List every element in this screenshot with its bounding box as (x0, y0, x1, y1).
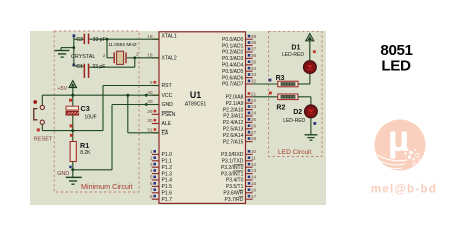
LED Circuit dashed box (269, 31, 323, 156)
svg-text:P0.1/AD1: P0.1/AD1 (222, 43, 244, 49)
title 8051 (380, 42, 413, 59)
R2 reference label (276, 105, 285, 112)
U1 pin 33 P0.6/AD6 (222, 72, 257, 81)
ground symbol (LED circuit) (305, 135, 318, 140)
U1 pin 3 P1.2 (150, 162, 172, 171)
R1 reference label (80, 141, 89, 150)
U1 pin 17 P3.7/RD (224, 194, 256, 203)
svg-text:33 pF: 33 pF (93, 37, 106, 43)
C3 value label 10UF (85, 115, 97, 121)
microcontroller U1 AT89C51 body (159, 32, 246, 204)
wire crystal left leg (107, 39, 113, 58)
svg-text:35: 35 (251, 59, 257, 65)
U1 pin 1 P1.0 (150, 149, 172, 158)
R1 marker top (70, 134, 73, 137)
U1 pin 37 P0.2/AD2 (222, 47, 257, 56)
svg-text:33 pF: 33 pF (92, 64, 105, 70)
svg-text:P3.2/INT0: P3.2/INT0 (221, 165, 244, 171)
U1 pin 31 EA (147, 127, 169, 136)
wire C1 to XTAL2 net (74, 58, 135, 67)
U1 pin 36 P0.3/AD3 (222, 53, 257, 62)
svg-text:36: 36 (251, 53, 257, 59)
svg-text:14: 14 (251, 175, 257, 181)
svg-text:U1: U1 (190, 90, 201, 100)
svg-text:P0.7/AD7: P0.7/AD7 (222, 82, 244, 88)
svg-text:XTAL2: XTAL2 (162, 56, 177, 62)
LED D2 (305, 105, 318, 118)
svg-text:24: 24 (251, 111, 257, 117)
svg-text:P2.3/A11: P2.3/A11 (223, 114, 243, 120)
U1 pin 28 P2.7/A15 (223, 136, 257, 145)
svg-text:22: 22 (251, 98, 257, 104)
svg-text:CRYSTAL: CRYSTAL (71, 54, 95, 60)
svg-text:EA: EA (162, 131, 169, 137)
svg-text:mel@b-bd: mel@b-bd (371, 184, 437, 196)
svg-text:P1.4: P1.4 (162, 178, 173, 184)
svg-text:2: 2 (103, 53, 106, 59)
wire RST node to pin 9 (73, 86, 159, 131)
svg-text:10: 10 (251, 149, 257, 155)
svg-text:12: 12 (251, 162, 257, 168)
svg-text:11.0592 MHZ: 11.0592 MHZ (108, 42, 137, 48)
svg-text:P3.4/T0: P3.4/T0 (226, 178, 244, 184)
svg-text:13: 13 (251, 168, 257, 174)
R3 wire boundary marker (269, 79, 272, 82)
wire VCC rail to pin 40 (42, 94, 159, 96)
svg-text:1: 1 (150, 149, 153, 155)
D1 reference label (291, 45, 300, 52)
U1 pin 12 P3.2/INT0 (221, 162, 257, 171)
title LED (381, 57, 411, 74)
U1 pin 30 ALE (147, 118, 171, 127)
U1 pin 27 P2.6/A14 (223, 130, 257, 139)
svg-text:XTAL1: XTAL1 (162, 33, 177, 39)
svg-text:LED Circuit: LED Circuit (278, 149, 312, 156)
capacitor C2 (84, 34, 90, 44)
R1 marker bottom (69, 166, 72, 169)
svg-text:29: 29 (147, 109, 153, 115)
wire VCC to EA pin 31 (128, 95, 159, 133)
watermark text mel@b-bd (371, 184, 437, 196)
U1 pin 6 P1.5 (150, 181, 172, 190)
svg-text:16: 16 (251, 187, 257, 193)
svg-text:C2: C2 (76, 37, 83, 43)
U1 pin 25 P2.4/A12 (223, 117, 257, 126)
wire D2 cathode to ground (310, 118, 312, 135)
U1 reference label (190, 90, 201, 100)
svg-text:RST: RST (162, 83, 172, 89)
+5V power label (58, 86, 68, 92)
svg-text:C1: C1 (76, 64, 83, 70)
svg-text:P2.5/A13: P2.5/A13 (223, 127, 244, 133)
crystal pin number 2 (103, 53, 106, 59)
C3 marker top (69, 99, 72, 102)
U1 pin 22 P2.1/A9 (226, 98, 257, 107)
svg-text:Minimum Circuit: Minimum Circuit (81, 182, 133, 191)
node: VCC/EA junction (126, 94, 129, 97)
svg-text:P3.6/WR: P3.6/WR (223, 191, 243, 197)
svg-text:P3.7/RD: P3.7/RD (224, 197, 243, 203)
switch origin marker (33, 100, 37, 104)
U1 pin 38 P0.1/AD1 (222, 40, 257, 49)
svg-text:P2.2/A10: P2.2/A10 (223, 107, 244, 113)
U1 pin 11 P3.1/TXD (222, 155, 256, 164)
D1 value label LED-RED (282, 52, 304, 58)
D1 origin marker (313, 50, 316, 53)
C1 value label 33 pF (92, 64, 105, 70)
wire XTAL1 net: ground rail to C2 to chip pin 19 (74, 38, 159, 40)
U1 pin 26 P2.5/A13 (223, 123, 257, 132)
wire ground node to pin 20 (73, 105, 159, 170)
svg-text:P1.7: P1.7 (162, 197, 173, 203)
svg-text:RESET: RESET (34, 137, 53, 143)
R1 value label 8.2K (80, 150, 91, 156)
crystal frequency label 11.0592 MHZ (108, 42, 137, 48)
resistor R2 (278, 94, 298, 100)
svg-text:11: 11 (251, 155, 256, 161)
U1 pin 35 P0.4/AD4 (222, 59, 257, 68)
svg-text:33: 33 (251, 72, 257, 78)
svg-text:25: 25 (251, 117, 257, 123)
svg-text:38: 38 (251, 40, 257, 46)
svg-text:5: 5 (150, 175, 153, 181)
svg-text:P3.0/RXD: P3.0/RXD (221, 152, 244, 158)
svg-text:LED-RED: LED-RED (283, 118, 305, 124)
svg-text:P2.1/A9: P2.1/A9 (226, 101, 244, 107)
wire R3 to pin 32 (253, 83, 278, 85)
C2 value label 33 pF (93, 37, 106, 43)
svg-text:AT89C51: AT89C51 (185, 102, 207, 108)
watermark logo (375, 118, 426, 171)
svg-text:6: 6 (150, 181, 153, 187)
svg-text:P2.6/A14: P2.6/A14 (223, 133, 244, 139)
resistor R1 (70, 131, 76, 170)
svg-text:P2.0/A8: P2.0/A8 (226, 95, 244, 101)
ground symbol (minimum circuit) (66, 170, 82, 184)
svg-text:P1.6: P1.6 (162, 191, 173, 197)
svg-text:39: 39 (251, 34, 257, 40)
U1 pin 34 P0.5/AD5 (222, 66, 257, 75)
svg-text:P1.1: P1.1 (162, 159, 173, 165)
U1 pin 39 P0.0/AD0 (222, 34, 257, 43)
wire crystal right leg to XTAL2 pin 18 (127, 57, 159, 59)
svg-text:P2.7/A15: P2.7/A15 (223, 139, 244, 145)
svg-text:4: 4 (150, 168, 153, 174)
U1 pin 13 P3.3/INT1 (221, 168, 257, 177)
svg-text:P1.0: P1.0 (162, 152, 173, 158)
LED circuit power symbol arrow (306, 34, 314, 61)
push button RESET switch (34, 95, 45, 130)
wire switch bottom to RST node (42, 130, 73, 132)
ground rail end marker (73, 34, 76, 37)
capacitor C3 (66, 95, 79, 130)
svg-text:8: 8 (150, 194, 153, 200)
wire ground rail (crystal) (61, 36, 75, 66)
RESET label (34, 137, 53, 143)
GND power label (57, 171, 69, 177)
U1 pin 18 XTAL2 (147, 52, 177, 61)
C3 marker bottom (70, 124, 73, 127)
svg-text:15: 15 (251, 181, 257, 187)
svg-text:34: 34 (251, 66, 257, 72)
svg-text:P0.2/AD2: P0.2/AD2 (222, 50, 244, 56)
U1 pin 20 GND (145, 99, 173, 108)
R3 reference label (276, 75, 285, 82)
C2 reference label (76, 37, 83, 43)
U1 pin 29 PSEN (147, 109, 175, 118)
svg-text:ALE: ALE (162, 121, 172, 127)
crystal pin number 1 (136, 52, 139, 58)
svg-text:7: 7 (150, 187, 153, 193)
svg-text:LED-RED: LED-RED (282, 52, 304, 58)
capacitor C1 (84, 64, 90, 78)
wire D1 cathode to R3 (298, 74, 310, 85)
U1 value label AT89C51 (185, 102, 207, 108)
Minimum Circuit dashed box (54, 31, 139, 192)
U1 pin 19 XTAL1 (147, 33, 177, 39)
svg-text:PSEN: PSEN (162, 112, 176, 118)
svg-text:10UF: 10UF (85, 115, 97, 121)
D2 value label LED-RED (283, 118, 305, 124)
svg-text:2: 2 (150, 155, 153, 161)
svg-text:P1.2: P1.2 (162, 165, 173, 171)
D2 reference label (293, 109, 302, 116)
U1 pin 24 P2.3/A11 (223, 111, 256, 120)
svg-text:P1.5: P1.5 (162, 184, 173, 190)
U1 pin 14 P3.4/T0 (226, 175, 257, 184)
svg-text:P2.4/A12: P2.4/A12 (223, 120, 244, 126)
U1 pin 10 P3.0/RXD (221, 149, 256, 158)
svg-text:30: 30 (147, 118, 153, 124)
svg-text:LED: LED (381, 57, 411, 74)
svg-text:P0.3/AD3: P0.3/AD3 (222, 56, 244, 62)
switch lower marker (37, 128, 40, 131)
svg-text:P3.3/INT1: P3.3/INT1 (221, 171, 244, 177)
svg-text:P0.0/AD0: P0.0/AD0 (222, 37, 244, 43)
node: RST node (C3/R1/switch) (71, 129, 74, 132)
svg-text:17: 17 (251, 194, 257, 200)
svg-text:P0.5/AD5: P0.5/AD5 (222, 69, 244, 75)
U1 pin 16 P3.6/WR (223, 187, 256, 196)
node: XTAL2/C1 junction (133, 56, 136, 59)
svg-text:8.2K: 8.2K (80, 150, 91, 156)
svg-text:P3.5/T1: P3.5/T1 (226, 184, 244, 190)
ground symbol (crystal) (55, 48, 70, 58)
U1 pin 15 P3.5/T1 (226, 181, 257, 190)
R2 wire boundary marker (269, 92, 272, 95)
C1 reference label (76, 64, 83, 70)
svg-text:GND: GND (162, 102, 174, 108)
svg-text:23: 23 (251, 104, 257, 110)
crystal X1 symbol (114, 51, 126, 64)
svg-text:P0.4/AD4: P0.4/AD4 (222, 63, 244, 69)
U1 pin 2 P1.1 (150, 155, 172, 164)
U1 pin 40 VCC (145, 90, 173, 99)
svg-text:D1: D1 (291, 45, 300, 52)
node: XTAL1/crystal junction (106, 38, 109, 41)
D2 wire marker (313, 122, 316, 125)
U1 pin 8 P1.7 (150, 194, 172, 203)
svg-text:P3.1/TXD: P3.1/TXD (222, 159, 244, 165)
svg-text:R1: R1 (80, 141, 89, 150)
svg-text:R2: R2 (276, 105, 285, 112)
svg-text:+5V: +5V (58, 86, 68, 92)
C1 terminal marker (72, 64, 75, 67)
svg-text:VCC: VCC (162, 93, 173, 99)
wire R2 to pin 21 (253, 96, 278, 98)
node: +5V junction (71, 94, 74, 97)
U1 pin 21 P2.0/A8 (226, 91, 257, 100)
U1 pin 9 RST (150, 80, 172, 89)
svg-text:3: 3 (150, 162, 153, 168)
svg-text:27: 27 (251, 130, 257, 136)
svg-text:26: 26 (251, 123, 257, 129)
svg-text:P0.6/AD6: P0.6/AD6 (222, 75, 244, 81)
svg-text:P1.3: P1.3 (162, 171, 173, 177)
CRYSTAL label (71, 54, 95, 60)
svg-text:GND: GND (57, 171, 69, 177)
U1 pin 32 P0.7/AD7 (222, 79, 257, 88)
U1 pin 7 P1.6 (150, 187, 172, 196)
U1 pin 23 P2.2/A10 (223, 104, 257, 113)
node: ground node (71, 168, 74, 171)
resistor R3 (278, 81, 298, 87)
LED D1 (304, 61, 317, 74)
svg-text:37: 37 (251, 47, 257, 53)
svg-text:C3: C3 (81, 104, 90, 113)
U1 pin 4 P1.3 (150, 168, 172, 177)
svg-text:1: 1 (136, 52, 139, 58)
wire R2 to D2 anode (298, 97, 311, 105)
svg-text:D2: D2 (293, 109, 302, 116)
svg-text:R3: R3 (276, 75, 285, 82)
+5V power symbol arrow (69, 81, 77, 96)
U1 pin 5 P1.4 (150, 175, 172, 184)
C3 reference label (81, 104, 90, 113)
svg-text:28: 28 (251, 136, 257, 142)
